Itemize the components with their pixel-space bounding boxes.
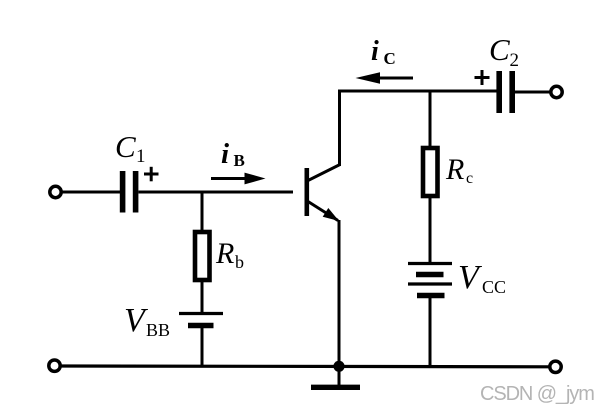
- capacitor C1: [123, 171, 136, 213]
- svg-text:B: B: [234, 151, 245, 170]
- svg-text:i: i: [221, 138, 229, 170]
- wire: VCC to bottom rail: [429, 296, 432, 367]
- svg-text:BB: BB: [146, 320, 170, 340]
- svg-text:V: V: [458, 259, 483, 296]
- battery VCC: [408, 264, 452, 296]
- label Rb: [215, 237, 244, 272]
- capacitor C2: [499, 71, 512, 113]
- wire: base node down to Rb: [201, 192, 204, 231]
- svg-text:i: i: [371, 36, 379, 67]
- wire: VBB to bottom rail: [201, 326, 204, 367]
- node: emitter/ground junction: [333, 361, 344, 372]
- resistor Rc: [423, 148, 438, 196]
- label iC: [371, 36, 396, 68]
- transistor Q1: [307, 165, 340, 222]
- label VCC: [458, 259, 506, 297]
- svg-text:b: b: [235, 252, 244, 272]
- wire: Rc to VCC: [429, 196, 432, 263]
- current arrow iC: [356, 72, 414, 84]
- polarity + of C2: [475, 70, 490, 85]
- bottom rail wire: [60, 364, 549, 368]
- label VBB: [124, 302, 170, 340]
- svg-text:1: 1: [136, 146, 146, 167]
- wire: C1 to base node: [139, 191, 294, 194]
- input terminal (top-left): [50, 186, 61, 197]
- resistor Rb: [195, 232, 210, 280]
- terminal bottom-right: [550, 361, 561, 372]
- wire: collector vertical: [338, 90, 341, 167]
- terminal bottom-left: [49, 360, 60, 371]
- svg-text:c: c: [466, 170, 473, 187]
- output terminal (top-right): [551, 86, 562, 97]
- wire: emitter vertical: [338, 220, 341, 367]
- wire: C2 to output terminal: [515, 91, 550, 94]
- label iB: [221, 138, 245, 170]
- top rail wire: [338, 90, 497, 93]
- battery VBB: [179, 314, 223, 326]
- wire: top rail down to Rc: [429, 91, 432, 147]
- label C2: [489, 32, 519, 71]
- label C1: [115, 129, 146, 167]
- svg-text:C: C: [115, 129, 136, 164]
- polarity + of C1: [144, 167, 159, 182]
- svg-text:C: C: [384, 49, 396, 68]
- label Rc: [445, 153, 473, 187]
- svg-text:CSDN @_jym: CSDN @_jym: [480, 383, 594, 405]
- svg-text:R: R: [445, 153, 464, 186]
- wire: input terminal to C1: [62, 191, 121, 194]
- svg-text:CC: CC: [482, 277, 506, 297]
- svg-text:R: R: [215, 237, 234, 270]
- svg-text:C: C: [489, 32, 510, 67]
- current arrow iB: [211, 173, 266, 185]
- ground: [311, 366, 360, 387]
- wire: Rb to VBB: [201, 280, 204, 313]
- svg-text:2: 2: [510, 50, 520, 71]
